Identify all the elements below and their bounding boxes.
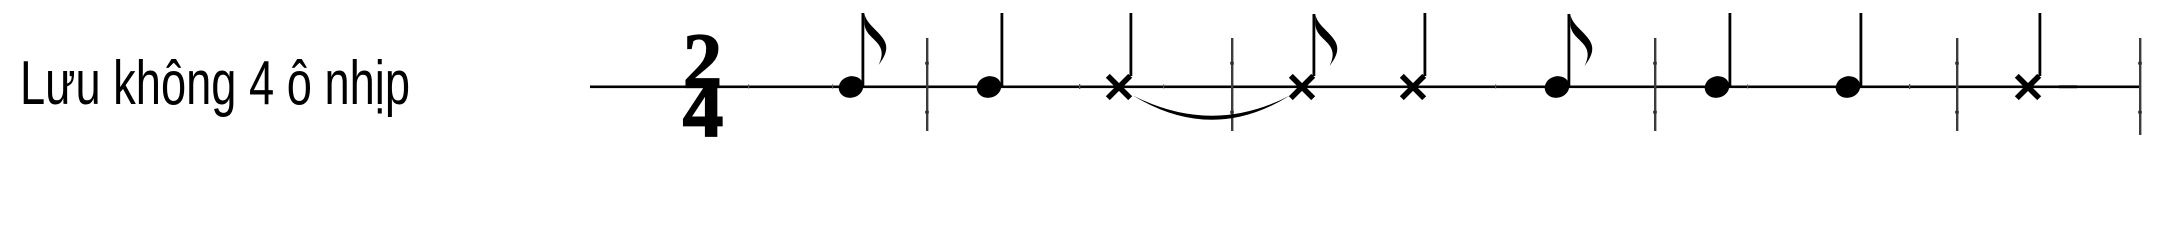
svg-text:4: 4	[683, 64, 724, 143]
svg-text:Lưu không 4 ô nhịp: Lưu không 4 ô nhịp	[20, 49, 410, 118]
